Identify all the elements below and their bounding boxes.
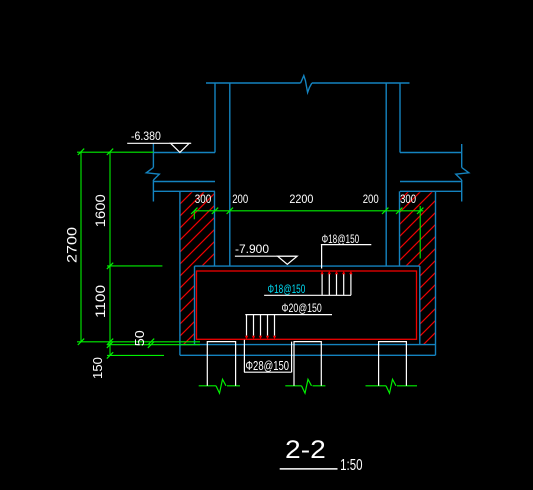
svg-text:150: 150 (90, 357, 105, 379)
svg-text:Φ28@150: Φ28@150 (246, 359, 290, 373)
svg-text:1100: 1100 (93, 285, 108, 318)
svg-text:Φ18@150: Φ18@150 (322, 232, 360, 246)
svg-text:-7.900: -7.900 (235, 242, 269, 256)
svg-text:50: 50 (132, 330, 147, 346)
svg-text:200: 200 (232, 192, 248, 206)
svg-text:1:50: 1:50 (340, 457, 362, 474)
svg-text:300: 300 (400, 192, 416, 206)
svg-text:2700: 2700 (64, 227, 80, 263)
svg-text:Φ18@150: Φ18@150 (268, 282, 306, 296)
svg-text:2200: 2200 (289, 192, 313, 206)
svg-text:1600: 1600 (93, 194, 108, 227)
svg-text:300: 300 (195, 192, 212, 206)
svg-text:200: 200 (363, 192, 379, 206)
svg-text:2-2: 2-2 (285, 436, 326, 464)
svg-text:-6.380: -6.380 (131, 131, 161, 143)
svg-text:Φ20@150: Φ20@150 (282, 301, 323, 315)
